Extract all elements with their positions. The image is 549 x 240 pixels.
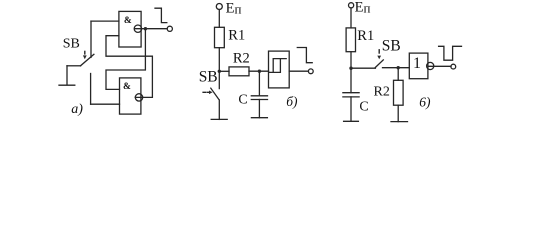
actuation arrow (circuit v) [377,50,381,60]
ground terminal T under C (circuit b) [251,117,267,119]
schmitt trigger U1 body (circuit b) [269,51,290,88]
output waveform symbol: falling step (circuit b) [297,48,312,63]
svg-text:SB: SB [382,38,401,55]
wire terminal to R1 (circuit b) [218,10,220,28]
G1 output inversion circle [134,25,141,32]
node dot after R1 (circuit b) [218,70,221,73]
wire G1 output feedback down to G2 input 1 [106,29,145,90]
R2 upper lead (circuit v) [397,68,399,81]
wire node to R2 (circuit b) [219,70,229,72]
supply terminal circle En (circuit b) [216,4,222,10]
capacitor C upper lead (circuit v) [350,68,352,93]
svg-text:SB: SB [63,37,80,52]
output terminal circle (circuit v) [451,64,456,69]
svg-text:R1: R1 [357,28,374,44]
svg-text:R2: R2 [374,84,390,99]
ground terminal T under C (circuit v) [344,120,359,122]
output waveform symbol: falling step (circuit a) [155,8,167,22]
wire G2 output feedback up to G1 input 2 [106,36,152,98]
svg-text:Eп: Eп [226,0,242,16]
resistor R2 body (circuit v) [394,80,404,105]
svg-text:R1: R1 [228,27,245,43]
wire terminal to R1 (circuit v) [350,8,352,28]
switch bottom contact stub (circuit a) [90,74,92,105]
wire SB top contact to G1 input 1 [91,20,119,22]
svg-text:1: 1 [413,55,421,72]
svg-text:б): б) [286,94,298,109]
svg-text:Eп: Eп [355,0,371,15]
resistor R2 body (circuit b) [229,67,249,76]
wire G1 output to terminal [135,28,167,30]
capacitor lower lead (circuit b) [258,100,260,118]
switch SB top stub (circuit b) [218,71,220,88]
capacitor C plates (circuit b) [251,96,267,100]
output terminal circle (circuit b) [308,69,313,74]
hysteresis symbol inside U1 [269,59,286,73]
R2 lower lead (circuit v) [397,105,399,121]
switch SB movable arm (circuit v) [375,60,383,68]
svg-text:SB: SB [199,68,218,85]
supply terminal circle En (circuit v) [349,3,354,8]
svg-text:&: & [124,16,132,26]
output terminal circle (circuit a) [167,26,172,31]
svg-text:а): а) [71,102,83,117]
wire R2 to schmitt input (circuit b) [249,70,269,72]
wire inverter output to terminal (circuit v) [428,65,451,67]
wire R1 to node (circuit b) [218,48,220,72]
node dot at R2 (circuit v) [397,66,400,69]
NAND gate G1 body [119,11,141,47]
switch SB movable arm (circuit a) [81,54,94,66]
ground terminal T (circuit b) [211,118,227,120]
svg-text:C: C [238,92,247,107]
wire SB bottom contact to G2 input 2 [91,103,120,105]
resistor R1 body (circuit b) [215,27,225,47]
svg-text:C: C [359,99,368,114]
resistor R1 body (circuit v) [346,28,355,52]
wire U1 output to terminal (circuit b) [289,70,308,72]
capacitor C plates (circuit v) [343,93,359,97]
actuation arrow (circuit b) [203,91,213,95]
NAND gate G2 body [120,78,141,114]
switch top contact stub (circuit a) [90,21,92,57]
node (junction dot) at G1 output [144,27,147,30]
actuation arrow (circuit a) [83,51,87,59]
svg-text:&: & [123,82,131,92]
wire common-to-arm (circuit a) [67,65,81,67]
ground terminal T under R2 (circuit v) [391,121,408,123]
capacitor lower lead (circuit v) [350,97,352,121]
capacitor C lead from node (circuit b) [258,71,260,96]
inverter output inversion circle (circuit v) [427,62,434,69]
svg-text:R2: R2 [233,51,250,67]
switch SB movable arm (circuit b) [211,88,219,99]
node dot before schmitt (circuit b) [258,70,261,73]
switch bottom stub (circuit b) [218,100,220,119]
svg-text:6): 6) [419,94,431,109]
node dot (circuit v) [349,67,352,70]
wire node to switch (circuit v) [351,67,375,69]
G2 output inversion circle [135,94,142,101]
wire switch right contact to gate input (circuit v) [383,67,410,69]
inverter gate body "1" (circuit v) [409,53,428,79]
wire R1 to node (circuit v) [350,52,352,68]
ground terminal T (common of SB, circuit a) [59,66,75,85]
output waveform symbol: negative pulse (circuit v) [439,46,462,60]
